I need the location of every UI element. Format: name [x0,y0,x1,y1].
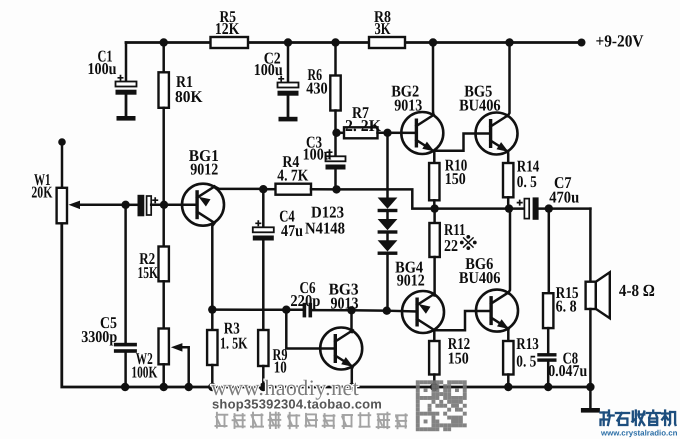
label R7 2.2K [345,103,381,135]
svg-text:www.crystalradio.cn: www.crystalradio.cn [600,429,678,438]
ground at C1 [117,95,136,121]
svg-text:N4148: N4148 [305,219,345,238]
wire R1 top [162,43,165,73]
wire C4 top [262,189,265,227]
svg-text:15K: 15K [138,263,159,282]
wire input to W1 [61,142,64,188]
svg-text:150: 150 [445,169,466,188]
label C1 100u [88,47,117,78]
transistor BG6 (BU406) [476,290,518,332]
wire output row [435,207,525,210]
wire to BG3 base [286,310,334,349]
wire cap to BG1 base [151,204,196,207]
wire R4 to node [311,188,337,191]
capacitor C4 [253,220,274,240]
wire R12 bottom [433,375,436,388]
resistor R15 [543,293,553,328]
wire R15 to C8 [547,328,550,353]
svg-text:+9-20V: +9-20V [596,32,645,51]
node BG3 collector/C6 [347,306,355,314]
resistor R11 [429,223,439,257]
svg-text:22: 22 [444,236,458,255]
svg-text:220p: 220p [290,291,320,310]
wire to R7 [337,132,345,135]
junction BG3 base tap [282,306,290,314]
svg-text:0. 5: 0. 5 [517,172,537,191]
W1 wiper arrow [69,201,126,210]
svg-text:2. 2K: 2. 2K [345,116,381,135]
junction R13/ground rail [504,383,512,391]
resistor R12 [429,341,439,375]
wire between diodes [386,234,389,241]
QR code watermark [416,380,467,431]
svg-text:80K: 80K [175,87,203,106]
wire C6 to BG3 collector node [312,309,351,312]
transistor BG1 (9012) [182,184,224,226]
wire W2 to rail [162,364,165,387]
wire C1 bottom [125,95,128,116]
label C3 100u [303,133,332,164]
transistor BG2 (9013) [401,112,443,154]
junction R1 top [160,38,168,46]
node BG1 emitter/R4/C4 [259,185,267,193]
wire R9 bottom [262,366,265,387]
wire feedback to output node [337,189,435,208]
wire C1 top [125,43,128,82]
junction W2 bottom [160,383,168,391]
junction W2 wiper [185,383,193,391]
label R13 0.5 [516,334,539,371]
node R7/diodes/BG2 base [383,129,391,137]
wire R6 top [334,43,337,76]
label R1 80K [175,72,203,106]
label BG1 9012 [189,146,219,179]
svg-text:47u: 47u [281,221,303,240]
wire C2 top [287,43,290,83]
resistor R14 [503,163,513,197]
wire to BG4 base node [352,309,387,312]
svg-text:0.047u: 0.047u [548,361,587,380]
label R11 22 [444,220,466,255]
svg-text:9012: 9012 [190,160,218,179]
wire diode chain top [386,133,389,198]
speaker (4-8 ohm) [586,272,610,318]
resistor R5 [211,37,249,48]
label R9 10 [273,345,288,377]
wire BG1 emitter to feedback node [215,187,264,189]
wire BG5 emitter to R14 [507,152,510,164]
label R15 6.8 [556,283,579,316]
wire bottom ground rail [62,223,591,387]
svg-text:0. 5: 0. 5 [516,352,536,371]
label R12 150 [448,334,471,367]
wire node A to C6 [212,308,303,311]
svg-text:470u: 470u [549,187,579,206]
junction R6 top [331,38,339,46]
label C4 47u [279,207,303,241]
svg-text:4. 7K: 4. 7K [277,166,308,185]
resistor R4 [276,184,312,195]
label C8 0.047u [548,349,587,381]
diode D1 (1N4148) [378,198,398,213]
label R4 4.7K [277,152,308,185]
svg-text:BU406: BU406 [459,268,501,287]
junction R14/BG6 collector [505,204,513,212]
wire between diodes [386,212,389,219]
label BG2 9013 [391,81,422,114]
wire C5 top [124,205,127,343]
wire C3 bottom [334,170,337,190]
wire BG3 emitter to ground rail [351,367,354,387]
transistor BG5 (BU406) [476,113,518,155]
wire to R11 [433,209,436,223]
wire R10 bottom [433,200,436,208]
wire C8 bottom [547,362,550,387]
wire C7 to speaker branch [539,207,591,210]
node BG1 collector/R3 [208,305,216,313]
wire to R10 [433,151,436,163]
svg-text:R13: R13 [516,334,539,353]
junction R9/ground rail [259,383,267,391]
junction C7/R15 [545,204,553,212]
node R6/R7/C3 [332,129,340,137]
wire to speaker [589,209,592,282]
label C5 3300p [81,313,117,346]
junction R3/ground rail [208,383,216,391]
ground at rail end [581,387,600,413]
label BG5 BU406 [459,81,501,114]
label C6 220p [290,278,320,310]
junction BG3 emitter/rail [348,383,356,391]
label C7 470u [549,173,579,206]
wire C3 top [334,133,337,157]
terminal input [58,138,66,146]
logo kuangshi shouyinji (crystalradio) [601,411,676,426]
watermark chinese caption [215,412,408,430]
wire to R12 [433,330,436,341]
input coupling capacitor [138,195,159,217]
wire to R2 [162,205,165,247]
wire C4 to R9 [262,241,265,331]
junction speaker/ground rail [586,383,594,391]
label R2 15K [138,249,159,282]
label BG6 BU406 [459,254,501,287]
resistor R9 [258,330,268,366]
junction BG2 collector/rail [429,38,437,46]
wire BG2 emitter to R10 and BG5 base [433,134,490,151]
junction R12/ground rail [430,383,438,391]
svg-text:100u: 100u [254,60,283,79]
label R3 1.5K [220,319,248,353]
wire BG3 collector up [352,310,353,333]
node BG4 base/diodes [383,307,391,315]
resistor R7 [344,127,378,138]
wire R1 to BG1 base [162,108,165,205]
label D123 N4148 [305,203,345,238]
reference mark [461,236,476,250]
label W2 100K [131,349,157,381]
resistor R13 [503,341,513,375]
wire BG5 collector to rail [508,43,510,117]
capacitor C2 [278,76,299,96]
label BG4 9012 [395,257,425,289]
svg-text:9012: 9012 [397,270,425,289]
svg-text:150: 150 [448,348,469,367]
junction BG5 collector/rail [505,38,513,46]
junction wiper/C5 [121,201,129,209]
label R6 430 [306,65,328,98]
transistor BG4 (9012) [402,291,444,333]
svg-text:100u: 100u [303,145,332,164]
W2 wiper arrow [171,343,189,387]
node output midpoint [430,204,438,212]
potentiometer W1 [57,188,67,224]
ground at C2 [279,96,298,122]
svg-text:6. 8: 6. 8 [556,297,577,316]
wire top supply rail [126,41,580,44]
label R14 0.5 [517,157,540,192]
wire R11 to BG4 emitter [433,257,436,296]
resistor R8 [369,37,405,48]
label BG3 9013 [329,280,359,313]
wire BG4 base [387,309,417,312]
resistor R6 [330,76,340,111]
diode D3 (1N4148) [378,240,398,255]
wire to R3 [211,310,214,330]
transistor BG3 (9013) [320,328,362,370]
svg-text:10: 10 [274,358,287,377]
svg-text:20K: 20K [31,182,52,201]
svg-text:3K: 3K [375,19,391,38]
wire BG2 collector to rail [432,43,435,115]
wire BG4 collector to R12 and BG6 base [434,311,490,330]
svg-text:shop35392304.taobao.com: shop35392304.taobao.com [212,397,382,412]
resistor R1 [159,72,169,108]
label R5 12K [215,7,240,38]
svg-text:4-8 Ω: 4-8 Ω [619,281,655,300]
svg-text:1. 5K: 1. 5K [220,334,248,353]
svg-text:9013: 9013 [394,96,422,115]
wire to R15 [548,209,551,294]
svg-text:430: 430 [306,79,328,98]
capacitor C7 (470u output) [517,197,539,219]
wire BG6 emitter to R13 [507,329,510,341]
svg-text:BU406: BU406 [459,96,501,115]
label R8 3K [374,7,391,38]
capacitor C3 [326,149,346,169]
wire R14 bottom [507,197,510,208]
capacitor C6 [303,303,313,318]
label W1 20K [31,170,52,201]
capacitor C8 (0.047u) [537,353,556,362]
wire R13 bottom [507,375,510,388]
capacitor C5 [114,343,137,353]
wire to R4 [263,188,275,191]
wire BG1 collector down [212,223,214,310]
label C2 100u [254,49,283,79]
wire BG6 collector to output [508,209,510,294]
wire wiper to cap [126,204,138,207]
resistor R3 [207,330,217,365]
wire R6 bottom [334,111,337,133]
wire diode chain to BG4 base [386,255,389,311]
label R10 150 [445,156,468,189]
node R4/C3/feedback [332,185,340,193]
wire speaker to rail [589,309,592,387]
terminal +9-20V [578,39,586,47]
wire R3 bottom [211,365,214,387]
capacitor C1 [116,75,137,95]
wire R2 to W2 [162,281,165,328]
svg-text:12K: 12K [215,19,240,38]
wire C5 bottom [124,353,127,387]
diode D2 (1N4148) [378,219,398,234]
resistor R10 [429,163,439,200]
wire C2 bottom [287,96,290,116]
svg-text:100u: 100u [88,59,117,78]
potentiometer W2 [159,329,169,365]
svg-text:3300p: 3300p [81,327,117,346]
junction C5/ground rail [121,383,129,391]
svg-text:100K: 100K [131,362,157,381]
resistor R2 [159,247,169,282]
junction C8/ground rail [544,383,552,391]
junction C2 top [284,38,292,46]
node R1/R2/BG1 base [160,201,168,209]
wire R7 to BG2 base [378,132,416,135]
